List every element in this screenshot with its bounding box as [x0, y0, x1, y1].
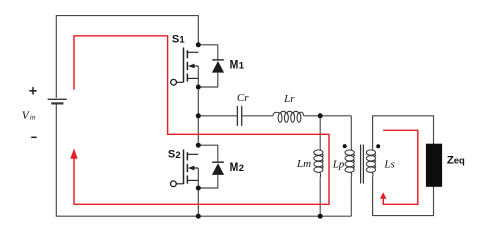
transformer polarity dot (primary)	[343, 144, 347, 148]
svg-text:2: 2	[239, 163, 244, 174]
junction node: half-bridge midpoint	[196, 113, 201, 118]
wire: M2 body diode branch	[198, 145, 218, 188]
wire: red primary current loop	[74, 36, 329, 205]
wire: half-bridge midpoint vertical (M1 body to M2 drain node)	[197, 66, 199, 145]
capacitor Cr plates	[237, 106, 241, 126]
svg-text:2: 2	[175, 150, 180, 161]
wire: Lm top lead	[319, 116, 321, 149]
wire: Lr to node A and Lp top corner	[304, 115, 352, 117]
label - (battery negative)	[31, 136, 36, 138]
inductor Lr	[273, 111, 304, 122]
wire: left rail top + top rail + M1 drain drop	[56, 16, 198, 98]
inductor Lm	[314, 149, 323, 177]
svg-text:S: S	[172, 33, 179, 45]
wire: Lm bottom lead	[319, 177, 321, 216]
wire: left rail bottom + bottom rail	[56, 105, 351, 217]
red arrow primary (up through source)	[70, 148, 77, 158]
red arrow secondary (up through Ls)	[380, 192, 387, 198]
svg-text:1: 1	[239, 61, 245, 72]
svg-text:S: S	[168, 149, 175, 161]
wire: Cr to Lr	[242, 115, 273, 117]
junction node: M1 drain	[196, 42, 201, 47]
load Zeq	[426, 144, 442, 187]
wire: M2 source leg to bottom rail	[197, 168, 199, 216]
transformer core	[361, 145, 364, 184]
svg-text:eq: eq	[454, 156, 465, 167]
junction node: Lm bottom on bottom rail	[318, 214, 323, 219]
svg-text:Lr: Lr	[283, 93, 295, 105]
transformer polarity dot (secondary)	[376, 144, 380, 148]
wire: red secondary current loop	[383, 130, 418, 204]
svg-text:Ls: Ls	[383, 158, 394, 170]
transformer primary Lp	[345, 149, 354, 177]
junction node: Lr output / Lm top	[318, 113, 323, 118]
wire: M1 body diode branch	[198, 45, 218, 87]
transistor Q1 (MOSFET, gate S1)	[171, 48, 199, 86]
label + (battery positive)	[29, 87, 36, 94]
wire: secondary loop (Ls to Zeq)	[373, 116, 434, 216]
battery Vin	[48, 99, 67, 103]
wire: Lp bottom lead	[350, 177, 352, 216]
svg-text:Cr: Cr	[237, 92, 249, 104]
wire: midpoint node to Cr	[198, 115, 237, 117]
arrow of Q1	[188, 64, 195, 69]
transformer secondary Ls	[366, 149, 375, 177]
transistor Q2 (MOSFET, gate S2)	[171, 150, 199, 187]
svg-text:Lp: Lp	[332, 158, 345, 170]
svg-text:M: M	[230, 59, 239, 71]
svg-text:Lm: Lm	[296, 158, 311, 170]
junction node: mid leg on bottom rail	[196, 214, 201, 219]
diode D2 (body diode of M2)	[212, 162, 224, 175]
junction node: M2 drain	[196, 143, 201, 148]
wire: Lp top lead	[350, 116, 352, 149]
svg-text:1: 1	[179, 35, 185, 46]
junction node: M1 source / diode return	[196, 85, 201, 90]
svg-text:in: in	[30, 112, 36, 121]
diode D1 (body diode of M1)	[212, 60, 224, 73]
junction node: M2 source / diode return	[196, 186, 201, 191]
svg-text:M: M	[230, 162, 239, 174]
arrow of Q2	[188, 166, 195, 171]
